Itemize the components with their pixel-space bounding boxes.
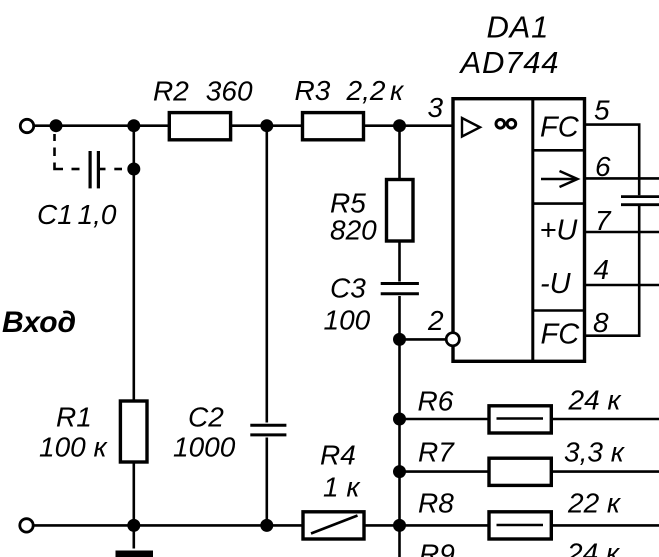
svg-text:6: 6 xyxy=(595,151,611,182)
resistor R6 xyxy=(489,406,551,433)
capacitor C4 xyxy=(621,197,659,205)
label +U xyxy=(540,215,579,247)
svg-text:AD744: AD744 xyxy=(459,45,560,80)
svg-text:100 к: 100 к xyxy=(39,432,108,463)
svg-text:2: 2 xyxy=(427,305,444,336)
pin 2 inversion circle xyxy=(446,333,459,346)
svg-text:R2: R2 xyxy=(153,76,189,107)
label R7 xyxy=(418,437,455,468)
svg-text:Вход: Вход xyxy=(2,306,76,339)
label FC bottom cell xyxy=(541,319,581,351)
label R4 xyxy=(320,440,356,471)
value C3 100 xyxy=(324,305,371,336)
wire top rail xyxy=(34,124,454,127)
wire C4 vertical branch xyxy=(638,125,641,336)
op-amp triangle symbol xyxy=(462,118,480,137)
svg-text:+U: +U xyxy=(540,215,579,247)
node junction bottom rail R1 xyxy=(127,519,140,532)
resistor R4 (adjustable) xyxy=(303,512,364,539)
wire vertical C2 branch xyxy=(265,126,268,526)
pin 5 number xyxy=(594,95,610,126)
svg-text:3,3 к: 3,3 к xyxy=(564,437,626,468)
wire bottom rail xyxy=(33,524,659,527)
svg-text:3: 3 xyxy=(428,92,444,123)
wire R6 output xyxy=(400,418,659,421)
svg-text:22 к: 22 к xyxy=(567,488,622,519)
value R9 24 k (cut off) xyxy=(566,538,621,557)
label R2 xyxy=(153,76,189,107)
capacitor C2 xyxy=(250,425,286,435)
value R1 100 k xyxy=(39,432,108,463)
pin 8 number xyxy=(593,307,609,338)
resistor R1 xyxy=(120,401,147,462)
wire pin 5 xyxy=(585,123,641,126)
value C2 1000 xyxy=(173,432,236,463)
resistor R3 xyxy=(303,113,364,140)
value R7 3,3 k xyxy=(564,437,626,468)
pin 6 number xyxy=(595,151,611,182)
svg-text:4: 4 xyxy=(594,254,610,285)
value R3 2,2 k xyxy=(346,75,406,106)
label AD744 xyxy=(459,45,560,80)
wire pin 7 xyxy=(585,231,659,234)
wire pin 6 xyxy=(585,177,659,180)
label C1 xyxy=(37,199,73,230)
node junction R2/R3/C2 xyxy=(260,119,273,132)
label R1 xyxy=(56,402,92,433)
node junction R3/R5/pin3 xyxy=(393,119,406,132)
svg-text:R4: R4 xyxy=(320,440,356,471)
svg-text:R8: R8 xyxy=(418,488,454,519)
svg-text:2,2: 2,2 xyxy=(346,75,386,106)
label FC top cell xyxy=(540,112,580,144)
svg-text:C3: C3 xyxy=(330,273,366,304)
svg-text:5: 5 xyxy=(594,95,610,126)
svg-text:к: к xyxy=(390,75,405,106)
value R2 360 xyxy=(206,76,253,107)
pin 2 number xyxy=(427,305,444,336)
svg-text:FC: FC xyxy=(541,319,581,351)
svg-text:1 к: 1 к xyxy=(323,472,361,503)
wire inverting input to pin 2 xyxy=(400,338,447,341)
capacitor C1 (dashed branch) xyxy=(55,134,123,188)
node junction R6 xyxy=(393,413,406,426)
wire vertical R5/C3 branch xyxy=(398,126,401,557)
value R6 24 k xyxy=(568,385,623,416)
input terminal top xyxy=(20,119,33,132)
op-amp DA1 box xyxy=(453,99,585,362)
node junction C1 to R1 branch xyxy=(127,163,140,176)
pin 7 number xyxy=(595,205,612,236)
label -U xyxy=(540,268,572,300)
wire pin 4 xyxy=(585,284,659,287)
value R5 820 xyxy=(330,215,377,246)
label R6 xyxy=(418,386,454,417)
label R9 (cut off) xyxy=(419,539,455,557)
label C3 xyxy=(330,273,366,304)
label R8 xyxy=(418,488,454,519)
label Vhod (input) xyxy=(2,306,76,339)
op-amp arrow symbol xyxy=(541,171,578,187)
node junction bottom rail C2 xyxy=(260,519,273,532)
svg-text:1000: 1000 xyxy=(173,432,236,463)
svg-text:R6: R6 xyxy=(418,386,454,417)
label R5 xyxy=(330,188,366,219)
svg-text:R1: R1 xyxy=(56,402,92,433)
node junction bottom rail R8 xyxy=(393,519,406,532)
wire R7 output xyxy=(400,470,659,473)
label R3 xyxy=(295,75,331,106)
label C2 xyxy=(188,402,224,433)
resistor R5 xyxy=(387,180,414,242)
resistor R7 xyxy=(489,458,551,485)
svg-text:R9: R9 xyxy=(419,539,455,557)
capacitor C3 xyxy=(381,284,419,294)
svg-text:R3: R3 xyxy=(295,75,331,106)
svg-text:820: 820 xyxy=(330,215,377,246)
svg-text:-U: -U xyxy=(540,268,572,300)
wire pin 8 xyxy=(585,334,641,337)
svg-text:24 к: 24 к xyxy=(566,538,621,557)
resistor R8 xyxy=(489,512,551,539)
svg-text:7: 7 xyxy=(595,205,612,236)
input terminal bottom xyxy=(20,519,33,532)
svg-text:DA1: DA1 xyxy=(487,10,550,45)
svg-text:100: 100 xyxy=(324,305,371,336)
ground xyxy=(116,525,154,557)
label DA1 xyxy=(487,10,550,45)
value C1 1,0 xyxy=(78,199,117,230)
value R4 1 k xyxy=(323,472,361,503)
svg-text:FC: FC xyxy=(540,112,580,144)
svg-text:1,0: 1,0 xyxy=(78,199,117,230)
resistor R2 xyxy=(169,113,230,140)
node junction top rail R1 branch xyxy=(127,119,140,132)
node junction C3/pin2 xyxy=(393,333,406,346)
svg-text:C2: C2 xyxy=(188,402,224,433)
wire vertical R1 branch xyxy=(133,126,136,526)
pin 3 number xyxy=(428,92,444,123)
value R8 22 k xyxy=(567,488,622,519)
node junction input xyxy=(50,119,63,132)
svg-text:24 к: 24 к xyxy=(568,385,623,416)
svg-text:360: 360 xyxy=(206,76,253,107)
svg-text:C1: C1 xyxy=(37,199,73,230)
pin 4 number xyxy=(594,254,610,285)
node junction R7 xyxy=(393,465,406,478)
svg-text:8: 8 xyxy=(593,307,609,338)
svg-text:R7: R7 xyxy=(418,437,455,468)
op-amp infinity gain symbol xyxy=(496,120,516,129)
